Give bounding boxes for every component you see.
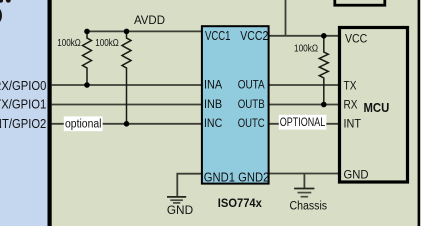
- junction dot VCC2/R3: [321, 33, 327, 39]
- svg-text:TX: TX: [344, 78, 357, 92]
- svg-text:VCC: VCC: [345, 32, 368, 46]
- chassis ground symbol: [294, 189, 314, 197]
- wire chassis tap: [303, 174, 305, 189]
- svg-text:optional: optional: [65, 118, 102, 130]
- MCU block: [340, 28, 408, 183]
- svg-text:OPTIONAL: OPTIONAL: [280, 117, 326, 129]
- wire GND2 to MCU GND: [268, 173, 340, 175]
- wire OUTB to RX: [268, 104, 340, 106]
- wire GND1 to ground: [177, 174, 202, 197]
- svg-text:INA: INA: [204, 77, 222, 91]
- svg-text:OUTC: OUTC: [238, 116, 265, 130]
- resistor R3 100k: [319, 36, 328, 105]
- svg-text:MCU: MCU: [364, 100, 390, 115]
- svg-text:INT: INT: [344, 117, 362, 131]
- processor block (cropped, left): [0, 0, 48, 226]
- ground symbol GND: [167, 197, 186, 203]
- svg-text:): ): [0, 6, 3, 22]
- svg-text:INC: INC: [204, 116, 222, 130]
- svg-text:ISO774x: ISO774x: [218, 196, 262, 210]
- resistor R1 100k: [83, 31, 92, 85]
- top box (cropped): [335, 0, 385, 5]
- svg-text:GND: GND: [344, 168, 369, 182]
- resistor R2 100k: [122, 31, 131, 123]
- junction dot R2/INC: [124, 121, 130, 127]
- svg-text:VCC1: VCC1: [205, 29, 231, 43]
- svg-text:Chassis: Chassis: [290, 200, 328, 212]
- figure right border: [418, 0, 421, 226]
- svg-text:AVDD: AVDD: [134, 15, 165, 27]
- wire OUTA to TX: [268, 84, 340, 86]
- svg-text:INT/GPIO2: INT/GPIO2: [0, 116, 46, 131]
- cropped title glyph bottoms: [0, 0, 3, 3]
- junction dot AVDD/R1: [84, 29, 90, 35]
- wire row INC: [52, 123, 203, 125]
- wire AVDD rail to VCC1: [87, 30, 202, 32]
- junction dot R3/OUTB: [321, 102, 327, 108]
- svg-text:GND: GND: [167, 203, 194, 217]
- svg-text:OUTA: OUTA: [238, 77, 265, 91]
- svg-text:100kΩ: 100kΩ: [294, 43, 318, 54]
- junction dot R1/INA: [84, 82, 90, 88]
- wire row INA: [52, 84, 203, 86]
- svg-text:100kΩ: 100kΩ: [57, 38, 81, 49]
- svg-text:VCC2: VCC2: [240, 29, 268, 43]
- wire OUTC to INT: [268, 123, 340, 125]
- junction dot AVDD/R2: [124, 29, 130, 35]
- svg-text:TX/GPIO1: TX/GPIO1: [0, 97, 46, 112]
- svg-text:RX/GPIO0: RX/GPIO0: [0, 78, 46, 93]
- wire VCC2 to MCU VCC: [268, 35, 340, 37]
- wire from top (cropped): [285, 0, 287, 37]
- svg-text:GND1 GND2: GND1 GND2: [204, 171, 270, 185]
- isolator U1 ISO774x: [202, 26, 269, 183]
- svg-text:INB: INB: [204, 97, 222, 111]
- label optional (left): [64, 116, 103, 131]
- svg-text:OUTB: OUTB: [238, 97, 265, 111]
- wire row INB: [52, 104, 203, 106]
- label OPTIONAL (right): [279, 115, 327, 130]
- svg-text:RX: RX: [344, 97, 358, 111]
- svg-text:100kΩ: 100kΩ: [95, 38, 119, 49]
